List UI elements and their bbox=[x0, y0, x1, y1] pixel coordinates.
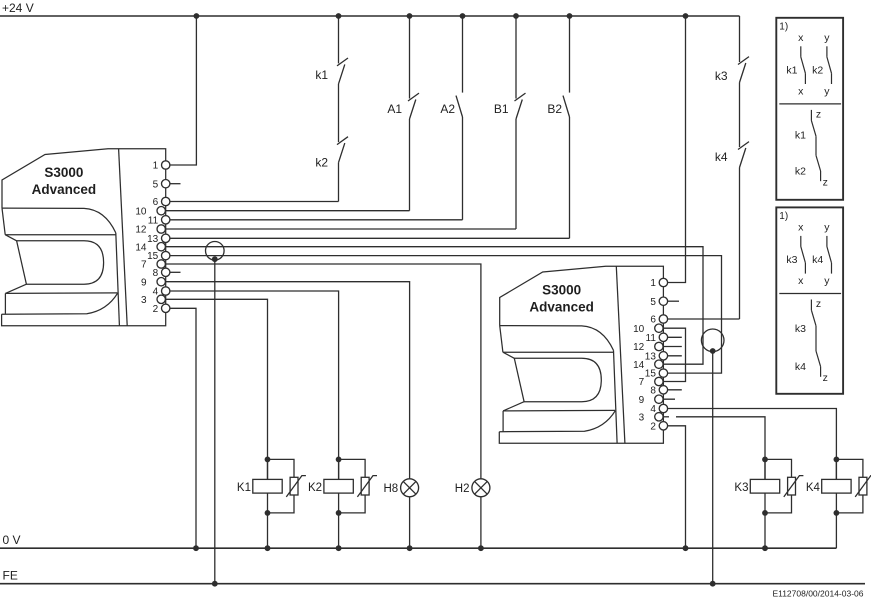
wire U1 pin3 to relay K1 bbox=[161, 299, 267, 479]
junction K1 on 0V bbox=[265, 545, 271, 551]
relay contact k4 (NC) bbox=[738, 142, 749, 168]
svg-text:12: 12 bbox=[633, 342, 645, 353]
junction U1 pin2 on 0V bbox=[193, 545, 199, 551]
junction A1 on +24V bbox=[407, 13, 413, 19]
switch contact A2 bbox=[456, 96, 463, 117]
svg-text:H8: H8 bbox=[383, 483, 398, 495]
svg-text:10: 10 bbox=[135, 206, 147, 217]
svg-text:y: y bbox=[824, 222, 830, 234]
svg-text:y: y bbox=[824, 275, 830, 287]
svg-text:1): 1) bbox=[779, 211, 788, 222]
svg-text:S3000: S3000 bbox=[44, 165, 83, 180]
junction H8 on 0V bbox=[407, 545, 413, 551]
svg-text:13: 13 bbox=[147, 234, 159, 245]
0V supply rail bbox=[0, 533, 836, 548]
wire +24V to B1 bbox=[515, 16, 517, 99]
svg-text:k3: k3 bbox=[715, 69, 728, 83]
svg-text:k3: k3 bbox=[786, 254, 797, 266]
wire +24V to k3 bbox=[739, 16, 741, 62]
wire B2 to U1 p13 row bbox=[569, 117, 571, 238]
wire U2 pin2 to 0V rail bbox=[663, 426, 685, 548]
wire U1 pin9 to lamp H8 bbox=[161, 282, 409, 479]
svg-text:k2: k2 bbox=[795, 166, 806, 178]
svg-text:10: 10 bbox=[633, 324, 645, 335]
junction K3 on 0V bbox=[762, 545, 768, 551]
svg-text:z: z bbox=[823, 177, 828, 189]
svg-text:k4: k4 bbox=[795, 361, 806, 373]
switch contact A1 bbox=[408, 93, 419, 119]
FE functional-earth rail bbox=[0, 569, 865, 584]
wire k3 to k4 bbox=[739, 83, 741, 148]
svg-text:5: 5 bbox=[650, 297, 656, 308]
svg-text:14: 14 bbox=[135, 242, 147, 253]
svg-text:K3: K3 bbox=[734, 482, 748, 494]
svg-text:B2: B2 bbox=[547, 102, 562, 116]
svg-text:1: 1 bbox=[153, 161, 159, 172]
svg-text:A2: A2 bbox=[440, 102, 455, 116]
relay coil K4 with varistor bbox=[806, 457, 871, 549]
wire k2 to U1 pin6 row bbox=[338, 163, 340, 202]
svg-text:2: 2 bbox=[153, 304, 159, 315]
junction k1 chain on +24V bbox=[336, 13, 342, 19]
wire U1 pin14 to U2 pin14 bbox=[161, 247, 703, 365]
svg-text:k1: k1 bbox=[786, 65, 797, 77]
svg-text:B1: B1 bbox=[494, 102, 509, 116]
svg-text:k2: k2 bbox=[315, 155, 328, 169]
junction A2 on +24V bbox=[460, 13, 466, 19]
svg-text:7: 7 bbox=[141, 260, 147, 271]
wire k1 to k2 bbox=[338, 84, 340, 142]
junction U1 pin1 feed on +24V bbox=[194, 13, 200, 19]
wire +24V to A2 bbox=[462, 16, 464, 93]
relay contact k1 (NC) bbox=[337, 58, 348, 84]
wire U2 pin8 stub bbox=[663, 389, 681, 391]
svg-text:x: x bbox=[798, 32, 804, 44]
wire A1 to U1 p10 row bbox=[409, 119, 411, 211]
legend box 1 contacts k1/k2 (x,y,z terminals) bbox=[776, 18, 843, 200]
svg-text:Advanced: Advanced bbox=[32, 182, 97, 197]
junction U2 shield on FE bbox=[710, 581, 716, 587]
wire U1 pin1 to +24V rail bbox=[166, 16, 197, 165]
relay contact k2 (NC) bbox=[337, 137, 348, 163]
svg-text:1): 1) bbox=[779, 21, 788, 32]
wire U1 pin4 to relay K2 bbox=[166, 291, 339, 479]
svg-text:8: 8 bbox=[650, 385, 656, 396]
svg-text:15: 15 bbox=[147, 251, 159, 262]
junction U2 pin2 on 0V bbox=[683, 545, 689, 551]
U1 terminal pins 1-15 bbox=[135, 161, 170, 315]
junction K2 on 0V bbox=[336, 545, 342, 551]
wire U2 pin3 stub bbox=[659, 416, 669, 418]
wire U1 pin11 to A2 bbox=[166, 219, 463, 221]
svg-text:0 V: 0 V bbox=[3, 533, 21, 547]
svg-text:15: 15 bbox=[645, 369, 657, 380]
wire +24V to k1 bbox=[338, 16, 340, 63]
wire U2 pin1 to +24V rail bbox=[663, 16, 685, 283]
svg-text:K2: K2 bbox=[308, 482, 322, 494]
svg-text:3: 3 bbox=[639, 412, 645, 423]
svg-text:14: 14 bbox=[633, 360, 645, 371]
wire U2 pin5 stub bbox=[663, 300, 679, 302]
wire U1 pin5 stub bbox=[166, 183, 181, 185]
wire U1 pin13 to B2 bbox=[166, 237, 570, 239]
svg-text:Advanced: Advanced bbox=[529, 299, 594, 314]
wire U2 pin10 to pin7 jumper bbox=[659, 328, 686, 381]
svg-text:5: 5 bbox=[153, 179, 159, 190]
svg-text:12: 12 bbox=[135, 225, 147, 236]
junction U2 pin1 feed on +24V bbox=[683, 13, 689, 19]
svg-text:11: 11 bbox=[646, 333, 657, 344]
svg-text:y: y bbox=[824, 32, 830, 44]
svg-text:1: 1 bbox=[650, 278, 656, 289]
wire k4 to U2 pin6 row bbox=[739, 168, 741, 320]
wire A2 to U1 p11 row bbox=[462, 117, 464, 220]
relay coil K1 with varistor bbox=[237, 457, 306, 549]
switch contact B2 bbox=[563, 96, 570, 117]
wire U1 pin6 to k2 contact bbox=[166, 201, 339, 203]
wire B1 to U1 p12 row bbox=[515, 119, 517, 229]
U2 terminal pins 1-15 bbox=[633, 278, 668, 432]
svg-text:9: 9 bbox=[639, 395, 645, 406]
wire +24V to B2 bbox=[569, 16, 571, 93]
wire U2 pin9 stub bbox=[659, 398, 675, 400]
svg-text:k1: k1 bbox=[795, 130, 806, 142]
svg-text:k4: k4 bbox=[715, 150, 728, 164]
svg-text:z: z bbox=[816, 109, 821, 121]
svg-text:7: 7 bbox=[639, 377, 645, 388]
wire U1 pin15 to U2 pin15 bbox=[166, 256, 722, 374]
wire +24V to A1 bbox=[409, 16, 411, 99]
junction H2 on 0V bbox=[478, 545, 484, 551]
wire U2 pin3 to relay K3 bbox=[676, 417, 765, 480]
svg-text:x: x bbox=[798, 86, 804, 98]
indicator lamp H8 bbox=[383, 479, 418, 548]
svg-text:2: 2 bbox=[650, 421, 656, 432]
wire U1 pin7 to lamp H2 bbox=[161, 264, 481, 479]
svg-text:k2: k2 bbox=[812, 65, 823, 77]
svg-text:x: x bbox=[798, 275, 804, 287]
wire U2 pin6 to k4 contact bbox=[663, 318, 739, 320]
svg-text:11: 11 bbox=[148, 215, 159, 226]
svg-text:S3000: S3000 bbox=[542, 283, 581, 298]
svg-text:A1: A1 bbox=[387, 102, 402, 116]
wire U2 pin13 stub bbox=[663, 355, 681, 357]
relay coil K3 with varistor bbox=[734, 457, 803, 549]
svg-text:13: 13 bbox=[645, 351, 657, 362]
svg-text:k4: k4 bbox=[812, 254, 823, 266]
svg-text:9: 9 bbox=[141, 277, 147, 288]
safety laser scanner U1 S3000 Advanced (left) body bbox=[2, 149, 166, 326]
wire U1 pin12 to B1 bbox=[161, 228, 516, 230]
wire U2 pin12 stub bbox=[659, 346, 682, 348]
cable shield U1 (screen to FE) bbox=[206, 242, 225, 584]
switch contact B1 bbox=[515, 93, 526, 119]
svg-text:6: 6 bbox=[650, 315, 656, 326]
svg-text:y: y bbox=[824, 86, 830, 98]
svg-text:K4: K4 bbox=[806, 482, 821, 494]
svg-text:FE: FE bbox=[3, 569, 18, 583]
svg-text:z: z bbox=[823, 372, 828, 384]
junction U1 shield on FE bbox=[212, 581, 218, 587]
relay contact k3 (NC) bbox=[738, 57, 749, 83]
wire U1 pin2 to 0V rail bbox=[166, 308, 196, 548]
safety laser scanner U2 S3000 Advanced (right) body bbox=[499, 266, 663, 443]
svg-text:3: 3 bbox=[141, 295, 147, 306]
svg-text:8: 8 bbox=[153, 268, 159, 279]
svg-text:6: 6 bbox=[153, 197, 159, 208]
svg-text:E112708/00/2014-03-06: E112708/00/2014-03-06 bbox=[772, 589, 863, 599]
svg-text:x: x bbox=[798, 222, 804, 234]
svg-text:K1: K1 bbox=[237, 482, 251, 494]
wire U2 pin11 stub bbox=[663, 336, 681, 338]
junction B1 on +24V bbox=[513, 13, 519, 19]
wire U1 pin10 to A1 bbox=[161, 210, 409, 212]
svg-text:k3: k3 bbox=[795, 323, 806, 335]
cable shield U2 (screen to FE) bbox=[701, 329, 724, 584]
+24V supply rail bbox=[0, 1, 740, 16]
junction B2 on +24V bbox=[567, 13, 573, 19]
wire U1 pin8 stub bbox=[166, 271, 181, 273]
indicator lamp H2 bbox=[455, 479, 490, 548]
svg-text:H2: H2 bbox=[455, 483, 470, 495]
legend box 2 contacts k3/k4 (x,y,z terminals) bbox=[776, 207, 843, 393]
wire U2 pin4 to relay K4 bbox=[663, 409, 836, 480]
relay coil K2 with varistor bbox=[308, 457, 377, 549]
svg-text:k1: k1 bbox=[315, 68, 328, 82]
svg-text:z: z bbox=[816, 298, 821, 310]
svg-text:+24 V: +24 V bbox=[2, 1, 34, 15]
